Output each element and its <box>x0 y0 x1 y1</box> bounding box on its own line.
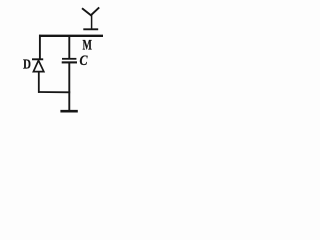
wire: top conductor M <box>39 35 103 37</box>
svg-text:M: M <box>83 38 92 54</box>
antenna Y arms <box>82 7 99 15</box>
ground bar <box>60 110 77 113</box>
svg-text:C: C <box>80 53 88 69</box>
antenna stem <box>91 15 93 29</box>
wire: bottom horizontal to junction <box>38 91 70 93</box>
wire: capacitor top lead <box>68 36 70 58</box>
svg-text:D: D <box>23 57 31 72</box>
wire: left vertical from M to diode <box>39 35 41 59</box>
wire: below diode down to bottom wire <box>38 72 40 93</box>
wire: capacitor bottom lead to ground <box>68 63 70 111</box>
diode D cathode bar <box>32 58 43 60</box>
antenna base bar <box>83 28 98 30</box>
capacitor C bottom plate <box>62 61 77 63</box>
capacitor C top plate <box>62 58 76 60</box>
diode D triangle <box>33 60 43 71</box>
